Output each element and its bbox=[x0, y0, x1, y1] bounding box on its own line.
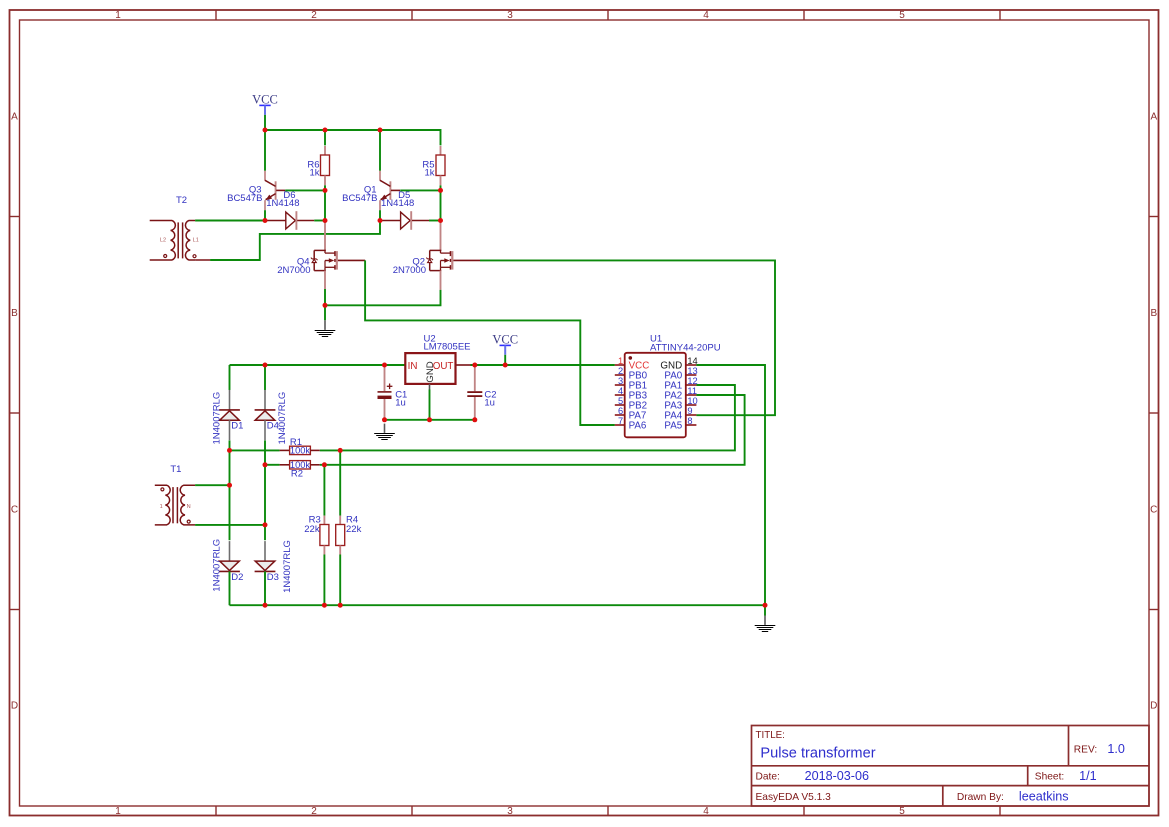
wire bbox=[324, 271, 326, 289]
svg-text:3: 3 bbox=[618, 376, 623, 386]
wire bbox=[365, 260, 615, 425]
svg-text:6: 6 bbox=[618, 406, 623, 416]
wire bbox=[320, 385, 735, 450]
wire bbox=[324, 130, 326, 145]
svg-text:L2: L2 bbox=[160, 238, 166, 244]
svg-text:REV:: REV: bbox=[1074, 744, 1097, 755]
diode D4 1N4007RLG bbox=[264, 390, 266, 410]
wire bbox=[324, 221, 326, 251]
pin 7 (PA6) bbox=[615, 424, 625, 426]
svg-text:2N7000: 2N7000 bbox=[393, 265, 426, 276]
svg-text:PA6: PA6 bbox=[629, 421, 647, 432]
svg-text:B: B bbox=[11, 308, 18, 319]
svg-text:1: 1 bbox=[160, 504, 163, 510]
diode D2 1N4007RLG bbox=[229, 541, 231, 561]
svg-text:IN: IN bbox=[408, 361, 418, 372]
wire bbox=[440, 185, 442, 220]
resistor R3 22k bbox=[323, 516, 325, 525]
wire bbox=[264, 440, 266, 540]
svg-text:3: 3 bbox=[507, 10, 513, 21]
transistor Q4 2N7000 bbox=[314, 249, 326, 251]
diode D6 1N4148 bbox=[265, 220, 286, 222]
node bbox=[438, 188, 443, 193]
svg-text:2: 2 bbox=[311, 10, 317, 21]
svg-text:A: A bbox=[11, 112, 18, 123]
resistor R4 22k bbox=[339, 516, 341, 525]
node bbox=[263, 218, 268, 223]
svg-text:BC547B: BC547B bbox=[227, 193, 262, 204]
node bbox=[382, 417, 387, 422]
wire bbox=[195, 484, 229, 486]
node bbox=[338, 448, 343, 453]
transistor Q3 BC547B bbox=[264, 171, 266, 181]
svg-text:1: 1 bbox=[618, 356, 623, 366]
resistor R1 100k bbox=[230, 449, 280, 451]
wire bbox=[429, 220, 441, 222]
diode D1 1N4007RLG bbox=[229, 390, 231, 410]
title block bbox=[752, 726, 1150, 807]
svg-text:4: 4 bbox=[703, 806, 709, 817]
svg-text:C: C bbox=[11, 505, 18, 516]
node bbox=[472, 417, 477, 422]
svg-text:1.0: 1.0 bbox=[1107, 742, 1125, 756]
wire bbox=[453, 259, 480, 261]
wire bbox=[504, 355, 506, 365]
svg-text:5: 5 bbox=[899, 10, 905, 21]
wire bbox=[338, 259, 365, 261]
transistor Q1 BC547B bbox=[379, 171, 381, 181]
node bbox=[322, 462, 327, 467]
pin 3 (PB1) bbox=[615, 384, 625, 386]
ground bbox=[324, 320, 326, 330]
wire bbox=[265, 130, 441, 145]
svg-text:2018-03-06: 2018-03-06 bbox=[805, 769, 869, 783]
wire bbox=[379, 130, 381, 171]
pin 8 (PA5) bbox=[686, 424, 697, 426]
wire bbox=[314, 220, 325, 222]
svg-text:1N4007RLG: 1N4007RLG bbox=[277, 392, 288, 445]
transformer T2 bbox=[150, 221, 176, 261]
transistor Q2 2N7000 bbox=[430, 249, 442, 251]
pin 13 (PA0) bbox=[686, 374, 697, 376]
capacitor C2 1u bbox=[474, 365, 476, 391]
svg-text:D1: D1 bbox=[231, 420, 243, 431]
svg-text:Drawn By:: Drawn By: bbox=[957, 792, 1004, 803]
pin 5 (PB2) bbox=[615, 404, 625, 406]
svg-text:D3: D3 bbox=[267, 572, 279, 583]
wire bbox=[195, 524, 265, 526]
wire bbox=[229, 365, 231, 390]
IC U1 ATTINY44-20PU bbox=[625, 353, 686, 438]
wire bbox=[429, 384, 431, 390]
wire bbox=[230, 604, 766, 606]
diode D3 1N4007RLG bbox=[264, 541, 266, 561]
svg-text:Sheet:: Sheet: bbox=[1035, 772, 1064, 783]
svg-text:B: B bbox=[1150, 308, 1157, 319]
diode D5 1N4148 bbox=[380, 220, 401, 222]
svg-text:1N4148: 1N4148 bbox=[381, 198, 414, 209]
node bbox=[323, 303, 328, 308]
node bbox=[227, 483, 232, 488]
svg-text:Pulse transformer: Pulse transformer bbox=[760, 746, 875, 762]
svg-text:EasyEDA V5.1.3: EasyEDA V5.1.3 bbox=[756, 792, 832, 803]
wire bbox=[264, 115, 266, 130]
capacitor C1 1u bbox=[384, 365, 386, 391]
node bbox=[378, 218, 383, 223]
svg-text:C: C bbox=[1150, 505, 1157, 516]
svg-text:22k: 22k bbox=[304, 524, 320, 535]
svg-text:22k: 22k bbox=[346, 524, 362, 535]
pin 11 (PA2) bbox=[686, 394, 697, 396]
svg-text:D2: D2 bbox=[231, 572, 243, 583]
svg-text:VCC: VCC bbox=[252, 92, 278, 106]
pin 6 (PA7) bbox=[615, 414, 625, 416]
wire bbox=[264, 210, 266, 220]
svg-text:LM7805EE: LM7805EE bbox=[424, 342, 471, 353]
svg-text:VCC: VCC bbox=[492, 332, 518, 346]
node bbox=[263, 363, 268, 368]
node bbox=[227, 448, 232, 453]
pin 9 (PA4) bbox=[686, 414, 697, 416]
svg-text:1: 1 bbox=[115, 10, 121, 21]
svg-text:2: 2 bbox=[311, 806, 317, 817]
svg-text:R1: R1 bbox=[290, 437, 302, 448]
wire bbox=[324, 305, 326, 320]
wire bbox=[195, 220, 265, 222]
pin 12 (PA1) bbox=[686, 384, 697, 386]
node bbox=[382, 363, 387, 368]
svg-text:8: 8 bbox=[687, 416, 692, 426]
svg-text:TITLE:: TITLE: bbox=[756, 730, 785, 741]
wire bbox=[480, 260, 775, 415]
svg-text:14: 14 bbox=[687, 356, 697, 366]
node bbox=[438, 218, 443, 223]
svg-text:5: 5 bbox=[618, 396, 623, 406]
resistor R6 bbox=[324, 146, 326, 155]
node bbox=[338, 603, 343, 608]
svg-text:9: 9 bbox=[687, 406, 692, 416]
svg-text:13: 13 bbox=[687, 366, 697, 376]
svg-text:2N7000: 2N7000 bbox=[277, 265, 310, 276]
transformer T1 bbox=[155, 485, 170, 525]
svg-text:2: 2 bbox=[618, 366, 623, 376]
node bbox=[378, 128, 383, 133]
node bbox=[263, 603, 268, 608]
wire bbox=[440, 221, 442, 251]
node bbox=[322, 603, 327, 608]
wire bbox=[339, 555, 341, 606]
wire bbox=[325, 290, 441, 305]
wire bbox=[264, 571, 266, 605]
wire bbox=[264, 365, 266, 390]
svg-text:ATTINY44-20PU: ATTINY44-20PU bbox=[650, 342, 721, 353]
svg-text:10: 10 bbox=[687, 396, 697, 406]
wire bbox=[379, 210, 381, 220]
pin 1 (VCC) bbox=[615, 364, 625, 366]
node bbox=[472, 363, 477, 368]
svg-text:1u: 1u bbox=[395, 397, 406, 408]
svg-text:1N4007RLG: 1N4007RLG bbox=[211, 539, 222, 592]
svg-text:4: 4 bbox=[703, 10, 709, 21]
pin 2 (PB0) bbox=[615, 374, 625, 376]
wire bbox=[230, 364, 406, 366]
wire bbox=[696, 365, 765, 605]
wire bbox=[400, 189, 440, 191]
svg-text:5: 5 bbox=[899, 806, 905, 817]
wire bbox=[323, 555, 325, 606]
svg-text:12: 12 bbox=[687, 376, 697, 386]
ground bbox=[764, 605, 766, 615]
wire bbox=[229, 440, 231, 540]
svg-text:D: D bbox=[11, 701, 18, 712]
wire bbox=[456, 364, 471, 366]
resistor R2 100k bbox=[265, 464, 280, 466]
node bbox=[263, 462, 268, 467]
wire bbox=[385, 419, 475, 421]
wire bbox=[440, 271, 442, 290]
pin 10 (PA3) bbox=[686, 404, 697, 406]
node bbox=[427, 417, 432, 422]
wire bbox=[229, 571, 231, 605]
wire bbox=[285, 189, 325, 191]
node bbox=[323, 188, 328, 193]
svg-text:L1: L1 bbox=[193, 238, 199, 244]
svg-text:A: A bbox=[1150, 112, 1157, 123]
node bbox=[323, 128, 328, 133]
svg-text:GND: GND bbox=[425, 361, 436, 382]
svg-text:1N4007RLG: 1N4007RLG bbox=[282, 540, 293, 593]
svg-text:3: 3 bbox=[507, 806, 513, 817]
svg-text:D: D bbox=[1150, 701, 1157, 712]
svg-text:11: 11 bbox=[687, 386, 697, 396]
wire bbox=[339, 450, 341, 515]
wire bbox=[320, 395, 745, 465]
voltage regulator U2 LM7805EE bbox=[405, 353, 455, 384]
svg-text:leeatkins: leeatkins bbox=[1019, 790, 1069, 804]
wire bbox=[264, 130, 266, 171]
ground bbox=[384, 424, 386, 433]
svg-text:1k: 1k bbox=[309, 168, 319, 179]
svg-text:7: 7 bbox=[618, 416, 623, 426]
wire bbox=[323, 465, 325, 516]
svg-text:1u: 1u bbox=[484, 397, 495, 408]
node bbox=[263, 128, 268, 133]
svg-text:PA5: PA5 bbox=[664, 421, 682, 432]
svg-text:1/1: 1/1 bbox=[1079, 769, 1097, 783]
node bbox=[263, 522, 268, 527]
pin 4 (PB3) bbox=[615, 394, 625, 396]
svg-text:1N4148: 1N4148 bbox=[266, 198, 299, 209]
svg-text:BC547B: BC547B bbox=[342, 193, 377, 204]
resistor R5 bbox=[440, 146, 442, 155]
svg-text:T2: T2 bbox=[176, 195, 187, 206]
node bbox=[323, 218, 328, 223]
svg-text:1: 1 bbox=[115, 806, 121, 817]
svg-text:R2: R2 bbox=[291, 469, 303, 480]
wire bbox=[324, 185, 326, 220]
svg-text:Date:: Date: bbox=[756, 772, 780, 783]
svg-text:T1: T1 bbox=[170, 464, 181, 475]
svg-text:1k: 1k bbox=[424, 168, 434, 179]
svg-text:1N4007RLG: 1N4007RLG bbox=[211, 392, 222, 445]
pin 14 (GND) bbox=[686, 364, 697, 366]
svg-text:N: N bbox=[187, 504, 191, 510]
svg-text:4: 4 bbox=[618, 386, 623, 396]
wire bbox=[210, 221, 380, 261]
node bbox=[503, 363, 508, 368]
node bbox=[763, 603, 768, 608]
